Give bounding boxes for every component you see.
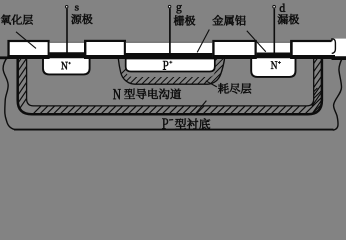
label: gate 栅极 (174, 15, 195, 25)
oxide segment 4 (right) (290, 40, 335, 59)
oxide segment 3 (212, 40, 256, 59)
N+ drain diffusion box (251, 57, 295, 77)
label: drain 漏极 (278, 14, 299, 24)
label: P- substrate P⁻型衬底 (162, 118, 210, 129)
surface contact bar under oxide segment 2 (84, 55, 126, 59)
label: depletion layer 耗尽层 (218, 83, 251, 93)
leader line from 金属铝 to gate metal (197, 30, 209, 53)
label: N 型导电沟道 (N-type conducting channel) (113, 89, 181, 100)
gate depletion layer boundary (118, 59, 224, 85)
leader line from P-substrate label (194, 101, 206, 116)
label: metal aluminum 金属铝 (213, 15, 246, 25)
label: source 源极 (71, 14, 92, 24)
channel/substrate junction inner outline (27, 58, 314, 106)
source metal contact (Al) (50, 42, 84, 52)
wire: source lead (66, 9, 68, 53)
label: g (177, 5, 182, 13)
depletion layer hatch (channel/substrate junction) (16, 48, 346, 125)
label: s (75, 6, 79, 11)
surface contact bar under oxide segment 1 (7, 55, 49, 59)
N+ source diffusion box (43, 57, 90, 74)
wire: gate lead (169, 8, 171, 56)
wire: drain lead (273, 9, 275, 53)
leader line from 氧化层 to oxide segment (16, 32, 36, 49)
surface contact bar under oxide segment 3 (212, 55, 256, 59)
label: oxide layer 氧化层 (1, 15, 33, 25)
leader line from 耗尽层 to depletion band (206, 81, 217, 87)
label: P+ (gate region) (163, 61, 172, 70)
curved break mark at right end of metal layer (332, 39, 336, 53)
node d terminal circle (273, 5, 276, 8)
gate metal contact (Al) (126, 42, 212, 53)
label: N+ (right) (271, 61, 281, 69)
oxide segment 1 (left, pointed by 氧化层) (7, 40, 49, 59)
oxide/metal layer continuation to right edge (332, 39, 346, 57)
surface line left of oxide (0, 56, 7, 59)
label: N+ (left) (61, 62, 71, 69)
node g terminal circle (168, 5, 171, 8)
substrate left broken edge (wavy) (3, 57, 14, 130)
channel/substrate junction outer outline (18, 58, 322, 114)
label: d (280, 4, 285, 12)
substrate bottom edge (14, 129, 334, 131)
oxide segment 2 (84, 40, 126, 59)
node s terminal circle (65, 6, 68, 9)
surface contact bar under oxide segment 4 (290, 55, 335, 59)
P+ gate diffusion box (126, 59, 215, 72)
leader line from 金属铝 to drain metal (247, 31, 266, 52)
drain metal contact (Al) (257, 42, 290, 53)
substrate right broken edge (wavy) (333, 57, 343, 130)
gate depletion layer hatch (60, 50, 312, 135)
